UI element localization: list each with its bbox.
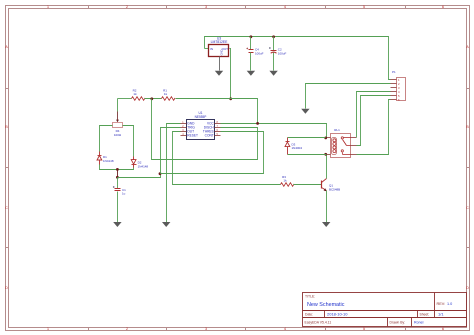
pin 2 TRIG stub — [181, 127, 187, 129]
svg-text:1k: 1k — [283, 179, 287, 183]
wire THRES to TRIG node — [161, 132, 264, 174]
svg-text:CONT: CONT — [205, 134, 214, 138]
frame ticks left — [6, 89, 9, 248]
pin 4 RESET stub — [181, 135, 187, 137]
wire C1 bottom — [117, 192, 119, 223]
wire R4 wiper arrow — [117, 112, 119, 121]
svg-text:NE555P: NE555P — [195, 115, 207, 119]
wire U3 OUT to VCC rail — [230, 49, 231, 99]
frame row letters left — [5, 44, 8, 290]
relay NC pin stub — [351, 137, 357, 139]
svg-text:D: D — [5, 285, 8, 290]
P1 pin 3 stub — [391, 87, 397, 89]
node junction diode rail — [116, 168, 119, 171]
svg-text:B: B — [5, 124, 8, 129]
wire C4 bottom — [250, 53, 252, 71]
wire R2 to junction — [145, 98, 162, 100]
relay NO pin stub — [351, 154, 357, 156]
wire R2 left to R4 wiper — [117, 99, 119, 112]
pin 1 GND stub — [181, 123, 187, 125]
wire relay NC to P1 pin 4 — [357, 92, 391, 138]
relay coil pin top stub — [326, 137, 331, 139]
capacitor C1 — [113, 186, 126, 196]
wire DISCH to R1 R2 junction — [152, 99, 258, 160]
node junction OUT riser on rail — [229, 97, 232, 100]
wire D3 bottom — [288, 154, 326, 156]
resistor R1 — [162, 89, 175, 101]
P1 pin 6 stub — [391, 99, 397, 101]
connector P1 — [392, 70, 406, 102]
svg-text:Ronel: Ronel — [414, 321, 424, 325]
svg-text:1N4004: 1N4004 — [292, 146, 303, 150]
svg-text:TITLE:: TITLE: — [305, 295, 315, 299]
wire relay NO to P1 pin 6 — [357, 100, 391, 155]
relay coil pin bottom stub — [326, 154, 331, 156]
potentiometer R4 — [113, 123, 123, 138]
relay COM pin stub — [351, 145, 357, 147]
frame ticks right — [467, 89, 470, 248]
ground (Q1) — [322, 222, 330, 227]
wire coil bottom to collector riser — [326, 154, 327, 156]
ground (U3) — [215, 71, 223, 76]
resistor R2 — [132, 89, 145, 101]
wire diode rail to C1 node — [117, 170, 119, 178]
frame column numbers bottom — [47, 326, 445, 331]
svg-text:2018-10-10: 2018-10-10 — [327, 312, 348, 317]
resistor R3 — [281, 175, 295, 186]
svg-text:RL1: RL1 — [334, 128, 340, 132]
svg-text:BC548B: BC548B — [329, 187, 340, 191]
pin 6 THRES stub — [215, 131, 221, 133]
wire R1 to rail right — [176, 99, 258, 124]
svg-text:REV:: REV: — [437, 302, 446, 306]
node junction C1 top — [116, 176, 119, 179]
ground (P1 pin 2) — [301, 109, 309, 114]
pin 8 VCC stub — [215, 123, 221, 125]
pin 5 CONT stub — [215, 135, 221, 137]
svg-text:A: A — [5, 44, 8, 49]
wire relay COM to P1 pin 5 — [357, 96, 391, 146]
wire U3 GND pin — [219, 57, 221, 71]
wire Q1 collector to relay coil — [326, 155, 328, 179]
svg-text:1k: 1k — [133, 92, 137, 96]
diode D2 — [131, 157, 148, 169]
wire C1 node to TRIG riser — [118, 174, 161, 178]
svg-text:D: D — [466, 285, 469, 290]
title block — [303, 293, 467, 327]
node junction coil bottom — [324, 153, 327, 156]
ground (C4) — [247, 71, 255, 76]
frame ticks top — [89, 6, 406, 9]
wire regulator IN stub — [205, 48, 209, 50]
frame row letters right — [466, 44, 469, 290]
node junction TRIG THRES — [159, 172, 162, 175]
svg-text:100uF: 100uF — [278, 51, 287, 55]
ground (C2) — [269, 71, 277, 76]
svg-text:A: A — [466, 44, 469, 49]
svg-text:P1: P1 — [392, 70, 396, 74]
svg-text:1u: 1u — [122, 192, 126, 196]
wire P1 pin 2 to ground — [306, 84, 391, 109]
node junction C4 top — [250, 35, 253, 38]
wire VCC to relay coil — [221, 124, 327, 138]
capacitor C4 — [246, 48, 263, 56]
svg-text:1k: 1k — [164, 92, 168, 96]
diode D1 — [97, 152, 114, 165]
svg-text:Date:: Date: — [305, 313, 313, 317]
P1 pin 2 stub — [391, 83, 397, 85]
svg-text:1N4148: 1N4148 — [103, 159, 114, 163]
wire C1 top lead — [117, 178, 119, 189]
svg-text:1N4148: 1N4148 — [138, 165, 149, 169]
wire R3 to Q1 base — [294, 184, 322, 186]
pin 3 OUT stub — [181, 131, 187, 133]
svg-text:EasyEDA V5.4.11: EasyEDA V5.4.11 — [305, 321, 332, 325]
ground (U1 GND) — [162, 222, 170, 227]
svg-text:C: C — [466, 205, 469, 210]
diode D3 — [285, 138, 302, 155]
wire C2 bottom — [273, 53, 275, 71]
wire U1 GND to ground — [167, 124, 181, 223]
svg-text:1/1: 1/1 — [438, 312, 444, 317]
svg-text:LM7812EE: LM7812EE — [211, 40, 229, 44]
svg-text:RESET: RESET — [187, 134, 198, 138]
frame ticks bottom — [89, 328, 406, 331]
svg-text:GND: GND — [219, 49, 223, 55]
voltage regulator U3 — [209, 36, 229, 56]
P1 pin 5 stub — [391, 95, 397, 97]
node junction C2 top — [272, 35, 275, 38]
node junction coil top — [324, 137, 327, 140]
wire D1 D2 bottom rail — [100, 165, 134, 170]
transistor Q1 — [322, 179, 341, 192]
capacitor C2 — [269, 47, 286, 55]
wire VCC rail left segment — [118, 98, 132, 100]
svg-text:C: C — [5, 205, 8, 210]
svg-text:IN: IN — [210, 47, 213, 51]
svg-text:100Ω: 100Ω — [114, 133, 122, 137]
timer U1 NE555P — [187, 111, 215, 139]
svg-text:Sheet:: Sheet: — [420, 313, 430, 317]
node junction R1 R2 — [150, 97, 153, 100]
P1 pin 1 stub — [391, 79, 397, 81]
svg-text:Drawn By:: Drawn By: — [390, 321, 406, 325]
wire C2 top — [273, 37, 275, 51]
svg-text:New Schematic: New Schematic — [307, 302, 345, 308]
node junction VCC rail drop — [256, 122, 259, 125]
wire TRIG — [161, 128, 181, 174]
wire R4 right to D2 — [123, 126, 134, 157]
wire Q1 emitter to ground — [326, 191, 328, 223]
svg-text:1.0: 1.0 — [447, 302, 452, 306]
wire VIN top rail — [205, 37, 391, 80]
wire R4 left to D1 — [100, 126, 113, 152]
svg-text:100uF: 100uF — [255, 51, 264, 55]
wire D3 top — [288, 137, 326, 139]
frame column numbers top — [47, 4, 445, 9]
P1 pin 4 stub — [391, 91, 397, 93]
svg-text:B: B — [466, 124, 469, 129]
wire C4 top — [250, 37, 252, 50]
relay RL1 — [331, 128, 351, 158]
ground (C1) — [113, 222, 121, 227]
wire OUT to R3 — [173, 132, 281, 185]
title block text — [305, 295, 453, 325]
pin 7 DISCH stub — [215, 127, 221, 129]
